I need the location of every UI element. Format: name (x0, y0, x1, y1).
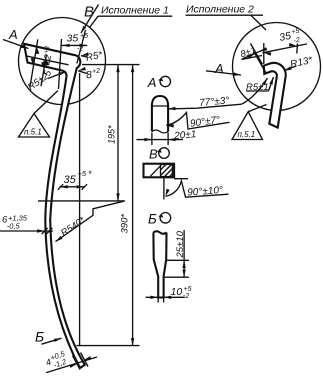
svg-text:Исполнение 2: Исполнение 2 (186, 4, 254, 16)
п.5.1 triangle left (19, 91, 59, 138)
view arrow A (left) (3, 27, 29, 50)
dim 90±7 (166, 113, 229, 130)
svg-text:35: 35 (278, 30, 292, 44)
dim 390 (120, 65, 135, 346)
dim R5±1 leader (246, 76, 275, 93)
detail circle 1 (19, 18, 106, 105)
svg-text:+2: +2 (92, 68, 101, 76)
bottom extension line (77, 345, 140, 347)
svg-text:35: 35 (64, 174, 77, 186)
svg-text:195*: 195* (107, 125, 117, 144)
svg-text:В: В (149, 147, 158, 162)
dim 12+3 (circle 1) (30, 39, 56, 86)
dim 25±10 (164, 230, 189, 277)
svg-text:Б: Б (148, 211, 157, 226)
dim 8+2 leader (circle1) (78, 67, 102, 82)
section Б label (148, 211, 171, 226)
dim R5±2 leader (inner radius circle1) (26, 70, 67, 93)
dim 20±1 (137, 129, 197, 145)
п.5.1 triangle right (232, 105, 267, 140)
mid extension line (38, 200, 125, 202)
view arrow B (top) (80, 4, 99, 34)
dim 35+5-2 (circle 2) (263, 28, 308, 64)
svg-text:А: А (8, 27, 18, 42)
main tine body (24, 44, 85, 368)
dim 195 (107, 65, 120, 201)
dim 8±1 (circle 2) (239, 44, 267, 74)
dim 77±3 (168, 77, 269, 110)
svg-text:+5: +5 (78, 169, 87, 178)
detail circle 2 (233, 23, 321, 111)
section B label (149, 147, 169, 162)
svg-text:-0,5: -0,5 (7, 221, 21, 230)
section A shape (152, 96, 168, 133)
section Б shape (153, 231, 166, 297)
svg-text:-2: -2 (183, 293, 189, 300)
svg-text:Исполнение 1: Исполнение 1 (101, 5, 169, 17)
dim 10+5-2 (146, 286, 192, 303)
svg-text:390*: 390* (120, 214, 131, 234)
dim 90±10 (164, 177, 229, 199)
label Исполнение 2 (186, 4, 266, 31)
svg-text:Б: Б (35, 329, 44, 345)
section B shape (144, 164, 175, 178)
hook part (circle 2) (264, 63, 286, 128)
section A label (147, 75, 171, 90)
dim R5* leader (outer radius circle1) (81, 49, 105, 63)
view arrow Б (bottom) (35, 329, 62, 345)
svg-text:п.5.1: п.5.1 (238, 130, 256, 139)
svg-text:35: 35 (67, 33, 79, 45)
dim R13 leader (283, 55, 314, 73)
svg-text:п.5.1: п.5.1 (24, 128, 42, 137)
svg-text:А: А (214, 61, 224, 76)
dim 35+5 (main view) (58, 73, 92, 346)
dim 5 (circle 1) (41, 55, 54, 87)
svg-text:+5: +5 (184, 286, 192, 293)
label Исполнение 1 (90, 5, 173, 28)
view arrow A (circle 2) (206, 61, 241, 77)
svg-text:20±1: 20±1 (173, 129, 197, 142)
dim 4+0,5-1,2 (tip) (43, 349, 97, 373)
svg-text:А: А (147, 75, 157, 90)
svg-text:В: В (84, 4, 94, 21)
svg-text:*: * (88, 169, 92, 179)
svg-text:10: 10 (171, 286, 183, 298)
middle face line L2 of top leg (26, 56, 69, 65)
dim 35+5-2 (circle 1) (59, 30, 89, 89)
svg-text:25±10: 25±10 (175, 230, 186, 258)
top extension line (82, 64, 140, 66)
dim R540 leader (55, 201, 124, 243)
dim 6+1,35-0,5 (thickness) (0, 214, 53, 235)
